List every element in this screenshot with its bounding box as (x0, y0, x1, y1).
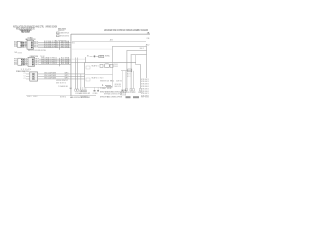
svg-text:BLU 18GA: BLU 18GA (61, 62, 70, 65)
svg-text:RESISTOR 10K: RESISTOR 10K (100, 80, 110, 82)
svg-text:W1: W1 (72, 42, 75, 44)
svg-text:CON E: CON E (93, 93, 98, 95)
svg-text:SEE NOTE: SEE NOTE (115, 86, 122, 88)
svg-text:WITH HAND CONTROLS OPTION: WITH HAND CONTROLS OPTION (104, 93, 122, 96)
svg-text:NOTE LINE 2 X: NOTE LINE 2 X (141, 81, 150, 83)
svg-text:PLUG2: PLUG2 (114, 66, 119, 68)
svg-text:CON F2: CON F2 (130, 92, 136, 94)
svg-text:NOTE LINE 3 X: NOTE LINE 3 X (141, 84, 150, 86)
svg-text:INLINE RES: INLINE RES (115, 84, 122, 86)
svg-text:P4: P4 (14, 46, 17, 48)
svg-text:NOTE LINE 1 X: NOTE LINE 1 X (141, 79, 150, 81)
svg-text:WH 18: WH 18 (23, 64, 27, 66)
svg-text:TO RELAY: TO RELAY (100, 87, 107, 90)
svg-text:RELAY NO 1: RELAY NO 1 (92, 64, 99, 67)
svg-text:SYMBOLS KEY: SYMBOLS KEY (58, 30, 65, 32)
svg-text:A12: A12 (146, 44, 150, 47)
svg-text:S1: S1 (87, 56, 89, 58)
svg-text:P2: P2 (14, 64, 17, 66)
svg-text:1: 1 (102, 85, 104, 87)
svg-text:GND1: GND1 (27, 96, 32, 98)
svg-text:CON F1: CON F1 (125, 92, 130, 94)
svg-text:BLK 18GA TO PIN 4: BLK 18GA TO PIN 4 (44, 45, 58, 48)
svg-text:RELAY NO 2: RELAY NO 2 (92, 76, 99, 79)
svg-text:GN 18: GN 18 (35, 64, 39, 66)
svg-text:RED 18GA: RED 18GA (61, 45, 70, 48)
svg-text:C1: C1 (24, 76, 26, 78)
svg-text:GRN 18GA TO PIN 12: GRN 18GA TO PIN 12 (41, 62, 57, 65)
svg-text:NOTE LINE 4 X: NOTE LINE 4 X (141, 86, 150, 88)
svg-text:WITHOUT HAND CONTROL OPTION: WITHOUT HAND CONTROL OPTION (100, 95, 122, 98)
svg-text:G4: G4 (69, 88, 72, 90)
svg-text:CONNECTOR PLUG: CONNECTOR PLUG (60, 33, 69, 35)
svg-text:WIRING SCHEM: WIRING SCHEM (46, 26, 58, 29)
svg-text:TO CHASSIS GND: TO CHASSIS GND (58, 85, 68, 88)
svg-text:K1 85: K1 85 (107, 88, 111, 90)
svg-text:R1: R1 (110, 81, 114, 83)
svg-text:N3: N3 (15, 52, 18, 54)
svg-text:NOTE LINE 8 X: NOTE LINE 8 X (141, 96, 150, 98)
svg-text:SP1: SP1 (65, 75, 69, 77)
svg-text:GND2: GND2 (33, 96, 38, 98)
svg-text:HAND CONTROL HARNESS ASSY: HAND CONTROL HARNESS ASSY (70, 96, 90, 99)
svg-text:C1: C1 (24, 73, 26, 75)
svg-text:HAND CONTROL UNIT: HAND CONTROL UNIT (79, 92, 91, 95)
svg-text:SEE NOTE 3: SEE NOTE 3 (56, 82, 66, 84)
svg-text:ORG 14GA POWER: ORG 14GA POWER (44, 76, 57, 79)
svg-text:NOTE LINE 5 X: NOTE LINE 5 X (141, 88, 150, 90)
svg-text:SEE NOTE 2 FOR WIRE ROUTING: SEE NOTE 2 FOR WIRE ROUTING (28, 50, 46, 52)
svg-text:NOTE LINE 6 X: NOTE LINE 6 X (141, 91, 150, 93)
svg-text:0.5W 5%: 0.5W 5% (116, 80, 122, 82)
svg-text:BLK 18: BLK 18 (22, 46, 26, 48)
svg-text:C1: C1 (24, 78, 26, 80)
svg-text:CAB X1: CAB X1 (140, 47, 145, 50)
svg-text:NOTE LINE 7 X: NOTE LINE 7 X (141, 93, 150, 95)
svg-text:ADVANCED HAND CONTROLS HARNESS: ADVANCED HAND CONTROLS HARNESS ASSEMBLY … (104, 29, 148, 32)
svg-text:RD 18: RD 18 (34, 47, 38, 49)
svg-text:PLUG1: PLUG1 (114, 64, 119, 66)
svg-text:POWER CONNECTOR C: POWER CONNECTOR C (16, 71, 30, 73)
svg-text:REV A 2021: REV A 2021 (22, 31, 30, 34)
svg-text:NOTE 4: NOTE 4 (60, 96, 66, 98)
svg-text:SPLICE JOINT X2: SPLICE JOINT X2 (60, 36, 69, 38)
svg-text:TO B2: TO B2 (40, 56, 45, 58)
svg-text:SP1: SP1 (65, 73, 69, 75)
